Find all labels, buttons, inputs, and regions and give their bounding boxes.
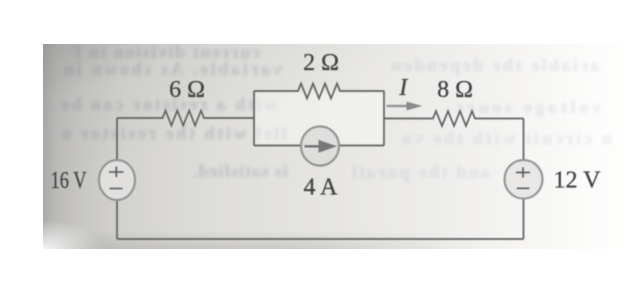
svg-text:8 Ω: 8 Ω — [437, 77, 473, 103]
svg-text:16 V: 16 V — [51, 168, 88, 194]
svg-text:4 A: 4 A — [303, 175, 338, 201]
svg-text:6 Ω: 6 Ω — [169, 77, 205, 103]
svg-text:12 V: 12 V — [554, 167, 602, 193]
svg-text:2 Ω: 2 Ω — [303, 50, 339, 76]
svg-text:I: I — [398, 75, 408, 101]
